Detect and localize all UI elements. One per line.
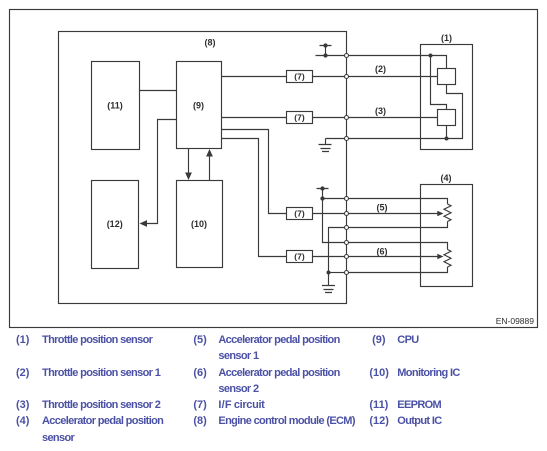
wire CPU to Output IC [147,120,177,224]
legend column 3 [372,335,385,346]
svg-text:(7): (7) [294,72,305,82]
connector pin circle F [345,271,349,275]
legend column 2 [193,335,206,346]
EEPROM box (11) [92,62,140,150]
wire CPU to I/F circuit 1 [222,76,287,78]
connector pin circle powerA [345,197,349,201]
svg-text:(7): (7) [294,113,305,123]
wire I/F circuit 1 to connector pin 2 [313,76,345,78]
svg-text:(5): (5) [377,203,388,213]
wire power to throttle position sensor [349,55,431,57]
junction dot power2 top [320,186,324,190]
I/F circuit box 7a [287,71,313,83]
wire CPU to Monitoring IC (down arrow) [188,149,190,175]
Monitoring IC box (10) [177,181,223,268]
wire power A to connector [323,198,345,200]
wire connector to pot2 top [349,243,448,250]
svg-text:(6): (6) [377,247,388,257]
CPU box (9) [177,62,222,149]
legend column 1 [16,335,29,346]
ground symbol 2 [322,273,335,293]
svg-text:(8): (8) [205,38,216,48]
connector pin circle ground1 [345,137,349,141]
svg-text:(3): (3) [375,106,386,116]
wire sensor1 ground return [447,85,463,139]
wire CPU to I/F circuit 3 [222,130,287,214]
svg-text:(7): (7) [294,209,305,219]
wire connector to throttle sensor ground [349,138,447,140]
wire sensor1 power feed [431,56,447,69]
I/F circuit box 7d [287,251,313,263]
wire I/F 3 to connector pin 5 [313,213,345,215]
junction dot power2 wire [320,196,324,200]
wire sensor2 power feed [431,56,447,110]
junction dot power1 top [323,43,327,47]
Output IC box (12) [92,181,139,269]
arrowhead pot2 wiper [437,254,443,259]
svg-text:(12): (12) [107,219,123,229]
svg-text:(4): (4) [441,173,452,183]
connector pin circle D [345,241,349,245]
junction dot sensor ground [445,137,449,141]
connector pin circle 5 [345,212,349,216]
wire Monitoring IC to CPU (up arrow) [209,156,211,181]
throttle sensor element 1 [438,69,456,85]
wire CPU to I/F circuit 4 [222,139,287,257]
connector pin circle 6 [345,255,349,259]
svg-text:(2): (2) [375,64,386,74]
ground symbol 1 [319,139,332,152]
svg-text:(10): (10) [191,219,207,229]
svg-text:(9): (9) [193,101,204,111]
connector pin circle power [345,54,349,58]
connector pin circle 2 [345,75,349,79]
wire I/F circuit 2 to connector pin 3 [313,117,345,119]
power supply stub bottom [317,189,329,199]
I/F circuit box 7c [287,208,313,220]
connector pin circle C [345,226,349,230]
wire connector pin 5 to pot1 wiper [349,213,438,215]
wire ground 1 to connector pin [326,138,345,140]
wire connector to pot1 top [349,199,448,205]
accelerator pedal position sensor box (4) [421,185,473,287]
power supply stub top [316,46,345,56]
svg-text:(7): (7) [294,252,305,262]
svg-text:(11): (11) [107,101,123,111]
svg-text:(1): (1) [441,33,452,43]
wire connector to pot1 bottom [349,222,448,228]
junction dot ground bus 2 [327,271,331,275]
wire sensor2 ground return [446,126,448,139]
wire CPU to I/F circuit 2 [222,117,287,119]
junction dot power1 wire [323,53,327,57]
arrowhead into Output IC [140,220,148,227]
throttle position sensor box (1) [421,45,473,150]
wire EEPROM to CPU [140,90,177,92]
wire connector pin 2 to throttle sensor 1 [349,76,438,78]
potentiometer 2 zigzag [444,250,451,268]
figure border [10,10,538,328]
I/F circuit box 7b [287,112,313,124]
arrowhead pot1 wiper [437,211,443,216]
junction dot sensor1 power [429,54,433,58]
wire connector to pot2 bottom [349,267,448,273]
arrowhead down into Monitoring IC [185,173,192,181]
throttle sensor element 2 [438,110,456,126]
wire C pot1 bottom to ground bus [329,228,345,273]
connector pin circle 3 [345,116,349,120]
wire connector pin 6 to pot2 wiper [349,256,438,258]
ECM module box (8) [59,32,347,304]
wire power branch to wire D [323,199,345,243]
potentiometer 1 zigzag [444,204,451,222]
svg-text:EN-09889: EN-09889 [496,316,535,326]
wire F ground to pot2 bottom [329,272,345,274]
wire I/F 4 to connector pin 6 [313,256,345,258]
wire connector pin 3 to throttle sensor 2 [349,117,438,119]
arrowhead up into CPU [206,149,213,157]
